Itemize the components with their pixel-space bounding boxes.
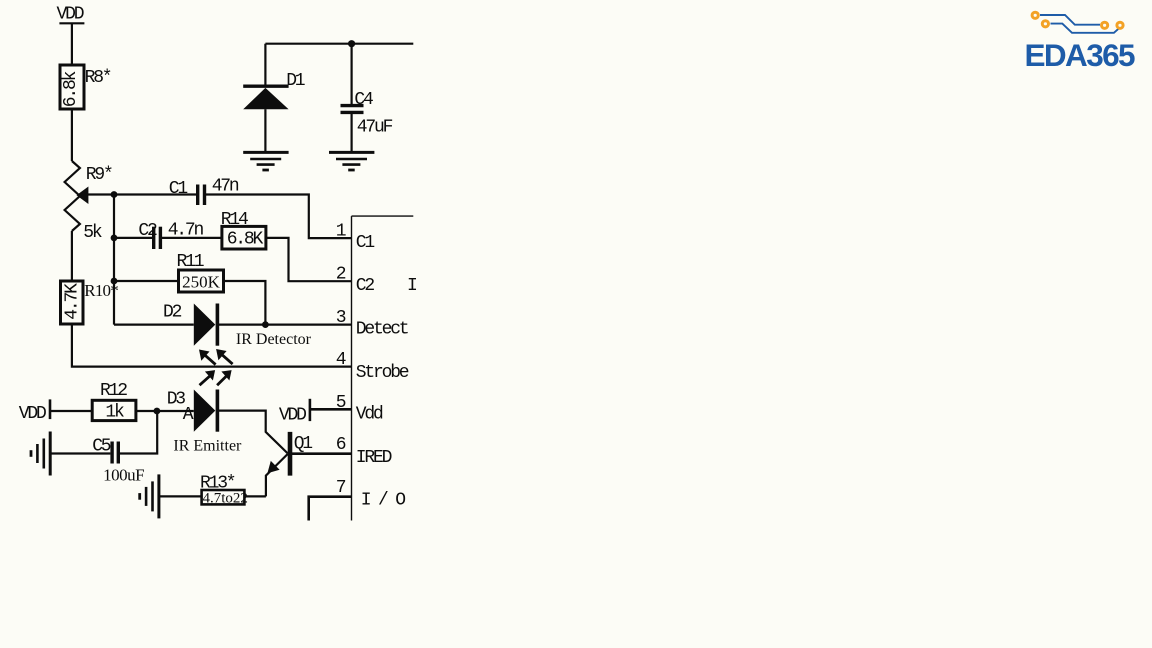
svg-text:IR Emitter: IR Emitter xyxy=(173,438,242,455)
svg-text:47uF: 47uF xyxy=(357,118,393,138)
svg-text:C1: C1 xyxy=(169,179,188,199)
svg-text:6.8K: 6.8K xyxy=(227,230,264,250)
svg-text:D1: D1 xyxy=(286,71,305,91)
svg-text:R9*: R9* xyxy=(86,165,112,185)
svg-text:VDD: VDD xyxy=(19,404,46,424)
svg-text:C2: C2 xyxy=(138,221,157,241)
svg-text:6.8k: 6.8k xyxy=(61,71,81,107)
wire R8 to R9 xyxy=(71,109,73,161)
resistor R12 xyxy=(92,400,136,420)
svg-text:D2: D2 xyxy=(163,303,182,323)
junction R11 xyxy=(111,278,118,285)
svg-text:47n: 47n xyxy=(212,176,239,196)
svg-text:C1: C1 xyxy=(356,233,375,253)
svg-text:Q1: Q1 xyxy=(294,434,313,454)
diode D1 xyxy=(243,44,288,152)
svg-text:Detect: Detect xyxy=(356,319,408,339)
resistor R14 xyxy=(222,226,266,249)
svg-text:Vdd: Vdd xyxy=(356,405,383,425)
svg-text:I: I xyxy=(407,276,418,296)
power port VDD top xyxy=(59,22,84,24)
diode D3 IR emitter xyxy=(194,390,288,454)
svg-text:250K: 250K xyxy=(182,272,221,291)
light arrows from D3 xyxy=(200,370,232,385)
power port VDD left xyxy=(50,399,92,419)
svg-text:IR Detector: IR Detector xyxy=(236,331,312,348)
logo trace 2 xyxy=(1051,24,1120,33)
svg-text:4.7n: 4.7n xyxy=(168,220,204,240)
junction R12 C5 xyxy=(154,408,161,415)
EDA365 logo xyxy=(1025,12,1136,73)
svg-text:7: 7 xyxy=(336,478,347,498)
wire VDD to R8 xyxy=(71,23,73,65)
IC U1 box xyxy=(352,216,414,520)
capacitor C5 xyxy=(51,411,157,464)
wire R12 to D3 xyxy=(136,410,194,412)
svg-text:VDD: VDD xyxy=(279,405,306,425)
resistor R10 xyxy=(61,281,84,324)
logo trace 1 xyxy=(1040,15,1100,25)
transistor Q1 xyxy=(266,432,352,497)
ground for R13 xyxy=(140,474,159,518)
top rail wire xyxy=(265,43,413,45)
svg-text:6: 6 xyxy=(336,435,347,455)
junction D2 cathode xyxy=(262,321,269,328)
potentiometer R9 zigzag xyxy=(65,161,80,231)
logo pad B xyxy=(1042,21,1048,27)
capacitor C2 xyxy=(114,227,222,249)
pin 7 stub xyxy=(309,497,352,521)
wire R14 to pin2 xyxy=(266,238,352,281)
logo pad D xyxy=(1117,22,1123,28)
capacitor C4 xyxy=(341,44,364,152)
svg-text:2: 2 xyxy=(336,265,347,285)
power port VDD mid xyxy=(310,399,352,421)
ground for C5 xyxy=(31,432,50,476)
svg-text:4.7to22: 4.7to22 xyxy=(203,490,248,506)
light arrows into D2 xyxy=(199,349,233,365)
svg-text:R11: R11 xyxy=(177,252,204,272)
svg-text:C5: C5 xyxy=(92,437,111,457)
svg-text:EDA365: EDA365 xyxy=(1025,37,1136,73)
svg-text:I / O: I / O xyxy=(361,491,405,511)
svg-text:VDD: VDD xyxy=(57,5,84,25)
svg-text:R8*: R8* xyxy=(85,68,111,88)
svg-text:4: 4 xyxy=(336,350,347,370)
resistor R13 xyxy=(160,490,266,504)
capacitor C1 xyxy=(114,185,352,239)
wire R10 to strobe row xyxy=(72,324,352,367)
junction wiper C1 xyxy=(111,191,118,198)
svg-text:D3: D3 xyxy=(167,390,186,410)
logo pad A xyxy=(1032,12,1038,18)
junction C2 xyxy=(111,235,118,242)
logo pad C xyxy=(1102,22,1108,28)
svg-text:C2: C2 xyxy=(356,276,375,296)
diode D2 IR detector xyxy=(114,304,352,346)
svg-text:3: 3 xyxy=(336,308,347,328)
wire R9 to R10 xyxy=(71,231,73,281)
svg-text:IRED: IRED xyxy=(356,448,392,468)
svg-text:C4: C4 xyxy=(354,90,373,110)
svg-text:R12: R12 xyxy=(100,381,127,401)
svg-text:1: 1 xyxy=(336,222,347,242)
resistor R8 xyxy=(60,65,84,109)
node bus vertical xyxy=(113,195,115,325)
ground for C4 xyxy=(329,152,374,170)
svg-text:4.7K: 4.7K xyxy=(62,283,82,320)
svg-text:100uF: 100uF xyxy=(103,466,144,485)
svg-text:5: 5 xyxy=(336,393,347,413)
svg-text:1k: 1k xyxy=(105,403,124,423)
resistor R11 xyxy=(114,270,265,325)
R9 wiper arrow xyxy=(77,187,115,205)
svg-text:5k: 5k xyxy=(83,223,102,243)
ground for D1 xyxy=(243,152,288,170)
svg-text:Strobe: Strobe xyxy=(356,363,409,383)
svg-text:R14: R14 xyxy=(221,210,248,230)
junction top rail C4 xyxy=(348,40,355,47)
